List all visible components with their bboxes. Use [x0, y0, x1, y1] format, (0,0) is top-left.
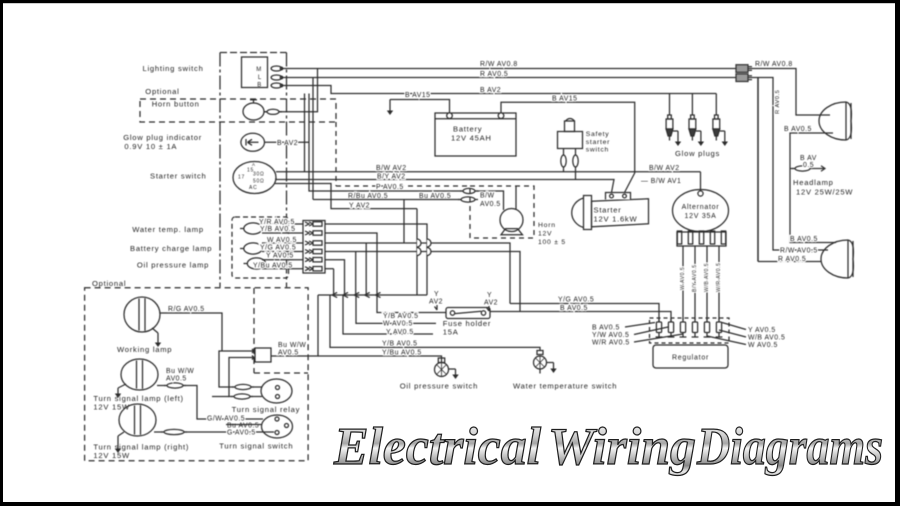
lamp cluster dashed box	[232, 217, 289, 278]
wire G AV0.5 lamp right	[154, 431, 163, 433]
svg-text:Y AV0.5: Y AV0.5	[266, 253, 294, 260]
optional inner partition dashes	[253, 288, 255, 373]
safety switch terminals	[561, 155, 566, 167]
wire B AV2 indicator	[265, 141, 310, 143]
wire Y/Bu row6	[325, 268, 334, 270]
svg-text:B AV0.5: B AV0.5	[592, 325, 620, 332]
svg-text:AV0.5: AV0.5	[278, 350, 299, 357]
wire R/W AV0.8 to upper headlamp	[748, 69, 830, 116]
svg-text:Bu W/W: Bu W/W	[278, 342, 306, 349]
starter motor M1	[584, 196, 592, 230]
water temp lamp L1	[244, 223, 262, 234]
svg-text:Safety: Safety	[586, 131, 610, 138]
water temperature switch S6	[534, 356, 547, 369]
glow plug indicator lamp	[241, 133, 265, 151]
svg-text:G AV0.5: G AV0.5	[227, 430, 256, 437]
turn signal lamp right L6	[119, 404, 156, 436]
svg-text:B AV0.5: B AV0.5	[560, 305, 588, 312]
svg-text:Headlamp: Headlamp	[793, 178, 834, 187]
svg-text:Glow plugs: Glow plugs	[675, 149, 720, 158]
svg-text:B/W: B/W	[480, 193, 495, 200]
wire R/W AV0.5 vertical	[758, 78, 828, 251]
svg-text:R AV0.5: R AV0.5	[480, 71, 508, 78]
svg-text:P AV0.5: P AV0.5	[376, 184, 404, 191]
svg-text:W/B AV0.5: W/B AV0.5	[704, 263, 710, 292]
lighting switch S1	[242, 57, 268, 88]
svg-text:Starter switch: Starter switch	[150, 172, 207, 181]
glow plugs feed drops	[669, 94, 671, 116]
lamp wires to terminals	[262, 223, 303, 225]
svg-text:12V 45AH: 12V 45AH	[451, 134, 492, 143]
battery charge lamp L2	[244, 243, 262, 254]
wire to water temp switch Y/B AV0.5	[330, 295, 540, 351]
svg-text:Y/B AV0.5: Y/B AV0.5	[382, 341, 417, 348]
svg-text:W AV0.5: W AV0.5	[748, 342, 778, 349]
connector CN1 on R/W wire	[736, 65, 748, 73]
svg-text:AV2: AV2	[429, 299, 443, 306]
turn signal lamp left L5	[121, 359, 158, 390]
starter terminals	[606, 193, 631, 200]
svg-text:Diagrams: Diagrams	[696, 418, 883, 476]
svg-text:W/R AV0.5: W/R AV0.5	[716, 263, 722, 292]
svg-text:Y/B AV0.5: Y/B AV0.5	[383, 313, 418, 320]
svg-text:Lighting switch: Lighting switch	[143, 64, 204, 73]
glow plug GP3	[715, 115, 719, 119]
svg-text:Horn: Horn	[538, 222, 556, 229]
wire B AV2 (lighting B to glow plugs)	[282, 86, 716, 94]
svg-text:B AV15: B AV15	[552, 96, 577, 103]
svg-text:B AV0.5: B AV0.5	[790, 236, 818, 243]
headlamp lower	[821, 240, 848, 278]
optional dashed enclosure	[85, 288, 309, 461]
terminal block right of cluster	[303, 221, 325, 274]
svg-text:12V 1.6kW: 12V 1.6kW	[594, 215, 638, 224]
alternator G1 12V 35A	[673, 190, 729, 232]
svg-text:R/G AV0.5: R/G AV0.5	[168, 306, 205, 313]
crossover jogs on fuse columns	[417, 239, 421, 247]
wire Y row5	[325, 260, 345, 295]
turn signal relay K1	[261, 379, 292, 403]
svg-text:R AV0.5: R AV0.5	[775, 90, 781, 114]
wire P AV0.5 (dashed)	[335, 122, 337, 186]
turn signal switch S7	[262, 415, 293, 438]
wire ACC to Y AV2	[275, 184, 417, 209]
svg-text:Starter: Starter	[594, 206, 622, 215]
svg-text:Battery charge lamp: Battery charge lamp	[130, 244, 212, 253]
svg-text:Y/W AV0.5: Y/W AV0.5	[592, 332, 629, 339]
svg-text:12V 15W: 12V 15W	[93, 451, 130, 460]
svg-text:AV0.5: AV0.5	[166, 376, 187, 383]
working lamp L4	[124, 297, 160, 332]
wire R AV0.5 vertical to lower lamp	[748, 77, 758, 79]
svg-text:Horn button: Horn button	[152, 100, 200, 109]
svg-text:Wiring: Wiring	[548, 418, 696, 476]
svg-text:Regulator: Regulator	[672, 355, 709, 362]
wire Y/R row to fuse column	[325, 224, 427, 295]
wire Bu W/W AV0.5 lamp left	[157, 385, 166, 387]
svg-text:B: B	[257, 83, 262, 89]
svg-text:A: A	[252, 162, 256, 167]
regulator terminal dashed box	[650, 318, 730, 343]
svg-text:Water temperature switch: Water temperature switch	[513, 382, 617, 391]
svg-text:Y AV0.5: Y AV0.5	[748, 327, 776, 334]
fuse holder F1 15A	[446, 308, 490, 319]
wire R AV0.5 (lighting L)	[282, 77, 737, 79]
svg-text:B AV15: B AV15	[405, 92, 430, 99]
svg-text:AC: AC	[249, 185, 257, 191]
alternator output wires	[682, 246, 684, 320]
connector CN2 on R wire	[736, 74, 748, 82]
wire Y/G row4 to x518	[325, 252, 520, 312]
wire B AV15 battery positive	[390, 100, 450, 114]
svg-text:B AV2: B AV2	[480, 87, 501, 94]
alternator terminal block	[677, 232, 726, 246]
svg-text:W AV0.5: W AV0.5	[680, 267, 686, 290]
svg-text:Glow plug indicator: Glow plug indicator	[123, 133, 202, 142]
wire Y/G AV0.5 to regulator	[510, 304, 659, 323]
horn button S2	[243, 103, 264, 120]
starter switch S4	[233, 162, 276, 194]
glow plug GP2	[691, 115, 695, 119]
svg-text:Oil pressure lamp: Oil pressure lamp	[137, 261, 209, 270]
column verticals	[312, 78, 314, 200]
svg-text:100 ± 5: 100 ± 5	[538, 239, 566, 246]
svg-text:12V 35A: 12V 35A	[684, 213, 716, 220]
svg-text:0.5: 0.5	[803, 162, 814, 169]
svg-text:12V 25W/25W: 12V 25W/25W	[796, 188, 853, 197]
wire B/W AV2 from starter switch	[276, 171, 701, 173]
svg-text:B/Y AV0.5: B/Y AV0.5	[692, 264, 698, 292]
svg-text:12V 15W: 12V 15W	[93, 403, 130, 412]
horn dashed enclosure	[470, 186, 534, 238]
watermark Electrical Wiring Diagrams	[333, 418, 883, 476]
svg-text:Alternator: Alternator	[682, 204, 720, 211]
wire to oil pressure switch Y/Bu AV0.5	[271, 295, 318, 356]
svg-text:R AV0.5: R AV0.5	[778, 256, 806, 263]
svg-text:Optional: Optional	[145, 87, 179, 96]
oil pressure lamp L3	[247, 258, 265, 269]
wire B/W AV2 drop to alternator	[700, 172, 702, 191]
svg-text:30Ω: 30Ω	[253, 172, 265, 178]
svg-text:Bu W/W: Bu W/W	[166, 368, 194, 375]
svg-text:Working lamp: Working lamp	[117, 345, 172, 354]
horn H1	[500, 209, 523, 232]
wire W row3 to x508	[325, 243, 510, 304]
wire B AV0.5 upper headlamp ground	[790, 133, 836, 243]
svg-text:12V: 12V	[538, 231, 552, 238]
svg-text:Y/B AV0.5: Y/B AV0.5	[260, 226, 295, 233]
wire P drop to horn	[515, 186, 517, 210]
svg-text:50Ω: 50Ω	[253, 179, 265, 185]
bus risers	[355, 252, 357, 296]
svg-text:Water temp. lamp: Water temp. lamp	[132, 225, 204, 234]
svg-text:R/W AV0.5: R/W AV0.5	[780, 248, 818, 255]
svg-text:Electrical: Electrical	[333, 418, 541, 476]
svg-text:Y/G AV0.5: Y/G AV0.5	[260, 245, 296, 252]
svg-text:17: 17	[238, 175, 245, 181]
svg-text:Turn signal switch: Turn signal switch	[219, 442, 293, 451]
battery BT1 12V 45AH	[435, 113, 516, 156]
svg-text:B AV0.5: B AV0.5	[784, 126, 812, 133]
svg-text:W/R AV0.5: W/R AV0.5	[592, 340, 630, 347]
svg-text:B/W AV2: B/W AV2	[649, 165, 680, 172]
svg-text:Y/Bu AV0.5: Y/Bu AV0.5	[253, 263, 293, 270]
horn button dashed box	[140, 99, 336, 122]
regulator terminals	[658, 318, 660, 322]
wire Y AV2 drop to bus	[416, 209, 418, 295]
svg-text:R/W AV0.8: R/W AV0.8	[480, 61, 518, 68]
border frame	[0, 0, 900, 3]
svg-text:B/W AV2: B/W AV2	[376, 165, 407, 172]
svg-text:Y AV0.5: Y AV0.5	[386, 329, 414, 336]
wire B/Y AV2	[276, 178, 614, 193]
connector block Bu W/W	[255, 348, 271, 362]
svg-text:B AV: B AV	[800, 155, 817, 162]
svg-text:Y AV2: Y AV2	[349, 203, 370, 210]
lighting switch terminal lugs	[271, 66, 282, 71]
svg-text:W AV0.5: W AV0.5	[267, 237, 297, 244]
wire B AV 0.5 to body ground with connector	[790, 168, 794, 170]
svg-text:W AV0.5: W AV0.5	[383, 320, 413, 327]
wire B AV15 battery to starter	[501, 102, 635, 192]
svg-text:starter: starter	[586, 139, 611, 146]
svg-text:R/W AV0.8: R/W AV0.8	[755, 61, 793, 68]
wire horn button to column	[279, 69, 318, 112]
svg-text:15A: 15A	[443, 328, 459, 337]
wire R/W AV0.8 (lighting M to headlamps)	[282, 68, 737, 70]
oil pressure switch S5	[435, 363, 449, 377]
svg-text:Battery: Battery	[453, 125, 482, 134]
svg-text:B/Y AV2: B/Y AV2	[377, 174, 406, 181]
wire W AV0.5 stub	[356, 295, 436, 323]
svg-text:Oil pressure switch: Oil pressure switch	[400, 382, 478, 391]
svg-text:Y/R AV0.5: Y/R AV0.5	[259, 219, 295, 226]
wire Y AV0.5 stub	[343, 295, 433, 334]
wire B/W AV0.5 branch	[313, 199, 460, 201]
wire connector pins to relay	[219, 351, 249, 387]
svg-text:Optional: Optional	[92, 279, 126, 288]
svg-text:Y: Y	[434, 291, 439, 298]
svg-text:— B/W AV1: — B/W AV1	[641, 178, 681, 185]
svg-text:Y: Y	[487, 292, 492, 299]
svg-text:0.9V 10 ± 1A: 0.9V 10 ± 1A	[124, 142, 177, 151]
svg-text:Bu AV0.5: Bu AV0.5	[227, 423, 259, 430]
glow plug GP1	[668, 115, 672, 119]
wire R/G AV0.5	[160, 313, 222, 351]
svg-text:G/W AV0.5: G/W AV0.5	[207, 416, 245, 423]
junction bus	[318, 294, 427, 296]
wire R/Bu AV0.5 to horn	[309, 94, 462, 192]
svg-text:Y/G AV0.5: Y/G AV0.5	[558, 297, 594, 304]
headlamp upper (12V 25W/25W)	[819, 102, 846, 140]
svg-text:AV2: AV2	[484, 300, 498, 307]
svg-text:Y/Bu AV0.5: Y/Bu AV0.5	[382, 350, 422, 357]
svg-text:Turn signal relay: Turn signal relay	[232, 405, 301, 414]
safety starter switch S3	[558, 132, 583, 149]
svg-text:AV0.5: AV0.5	[480, 201, 501, 208]
svg-text:W/B AV0.5: W/B AV0.5	[748, 335, 785, 342]
instrument panel boundary (chain line)	[220, 52, 287, 54]
svg-text:L: L	[258, 75, 262, 81]
svg-text:B AV2: B AV2	[277, 140, 298, 147]
wire B AV0.5 fuse to regulator	[490, 312, 671, 323]
wire Y/B row2	[325, 233, 446, 313]
svg-text:M: M	[256, 67, 262, 73]
svg-text:switch: switch	[586, 147, 609, 154]
regulator VR1 box	[653, 345, 728, 368]
